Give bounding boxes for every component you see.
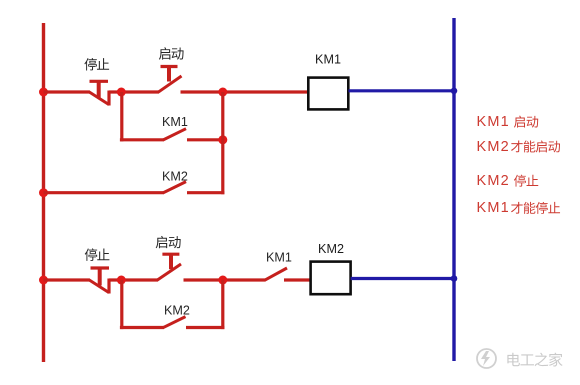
contact KM1 (NO self-hold): moving contact diagonal xyxy=(163,129,186,140)
wire: blue from KM1 coil to right bus xyxy=(349,89,455,92)
svg-text:KM1: KM1 xyxy=(162,115,188,129)
node: junction dot after SB4 (parallel branch tap) xyxy=(218,276,227,285)
wire: left red supply bus L1 xyxy=(42,23,45,362)
node: junction dot after stop button (KM1 branch tap) xyxy=(117,88,126,97)
wire: KM2 contact row left segment from left bus xyxy=(44,191,165,194)
pushbutton SB3 stop (NC): right contact riser xyxy=(107,279,110,294)
pushbutton SB2 start (NO): moving contact diagonal xyxy=(158,76,182,92)
wire: bottom KM2 contact row left segment xyxy=(120,326,164,329)
svg-text:KM1: KM1 xyxy=(477,200,510,216)
svg-text:KM1: KM1 xyxy=(266,250,292,264)
wire: right branch vertical from top rung down to KM2 row xyxy=(221,92,224,194)
pushbutton SB1 stop (NC): right contact riser xyxy=(107,91,110,106)
pushbutton SB3 stop: actuator T bar xyxy=(91,266,110,269)
node: blue junction dot on right bus (top rung) xyxy=(451,88,458,95)
svg-text:KM2: KM2 xyxy=(162,169,188,183)
pushbutton SB1 stop: actuator T bar xyxy=(90,80,109,83)
wire: top rung between SB1 and SB2 xyxy=(109,90,159,93)
wire: blue from KM2 coil to right bus xyxy=(351,277,454,280)
pushbutton SB3 stop (NC): moving contact diagonal xyxy=(89,280,110,293)
wire: top rung from SB2 to KM1 coil xyxy=(181,90,309,93)
wire: right blue neutral bus N xyxy=(452,18,455,361)
wire: KM2 contact row right segment xyxy=(187,191,224,194)
pushbutton SB4 start (NO): moving contact diagonal xyxy=(157,264,181,280)
pushbutton SB1 stop (NC): moving contact diagonal xyxy=(89,92,110,105)
wire: bottom rung from SB4 to KM1 interlock contact xyxy=(184,278,266,281)
svg-text:KM2: KM2 xyxy=(164,303,190,317)
node: junction dot KM1 row / right branch xyxy=(218,135,227,144)
label: 启动 (start) top xyxy=(159,47,170,59)
wire: KM1 contact row right segment xyxy=(187,138,224,141)
node: junction dot after SB3 (KM2 branch tap) xyxy=(117,276,126,285)
wire: bottom KM2 contact row right segment xyxy=(186,326,224,329)
pushbutton SB2 start: actuator stem xyxy=(167,67,171,82)
contact KM1 (NO interlock): moving contact diagonal xyxy=(265,268,288,280)
label: 停止 (stop) top xyxy=(84,58,96,70)
pushbutton SB4 start: actuator stem xyxy=(169,254,173,269)
node: junction dot after start button (parallel branch tap) xyxy=(218,88,227,97)
coil KM1: rectangle xyxy=(308,78,348,110)
svg-text:KM2: KM2 xyxy=(318,242,344,256)
node: junction dot left bus / KM2 row xyxy=(39,188,48,197)
contact KM2 (NO self-hold bottom): moving contact diagonal xyxy=(163,317,186,328)
pushbutton SB1 stop: actuator stem xyxy=(97,81,101,97)
wire: branch drop after SB1 down to KM1 contact row xyxy=(120,92,123,141)
wire: KM1 contact row left segment xyxy=(120,138,164,141)
node: junction dot left bus / bottom rung xyxy=(39,276,48,285)
svg-text:KM1: KM1 xyxy=(315,53,341,67)
contact KM2 (NO): moving contact diagonal xyxy=(163,182,186,193)
watermark logo inner mark xyxy=(481,351,490,366)
wire: branch drop after SB3 down to KM2 row (bottom) xyxy=(120,280,123,329)
pushbutton SB3 stop: actuator stem xyxy=(98,268,102,286)
wire: right branch vertical bottom rung down to KM2 row xyxy=(221,280,224,329)
node: blue junction dot on right bus (bottom rung) xyxy=(451,275,458,282)
node: junction dot left bus / top rung xyxy=(39,88,48,97)
coil KM2: rectangle xyxy=(311,262,351,295)
svg-text:KM2: KM2 xyxy=(477,139,510,155)
pushbutton SB4 start: actuator T bar xyxy=(162,253,179,256)
wire: bottom rung between SB3 and SB4 xyxy=(109,278,158,281)
label: 启动 (start) bottom xyxy=(156,236,167,248)
wire: top rung from left bus to stop button SB1 xyxy=(44,90,90,93)
watermark logo circle xyxy=(477,349,496,368)
wire: bottom rung from left bus to SB3 xyxy=(44,278,90,281)
label: 停止 (stop) bottom xyxy=(85,248,97,260)
svg-text:KM2: KM2 xyxy=(477,173,510,189)
watermark text: 电工之家 xyxy=(507,353,520,367)
wire: bottom rung from KM1 contact to KM2 coil xyxy=(284,278,311,281)
pushbutton SB2 start: actuator T bar xyxy=(161,65,178,68)
svg-text:KM1: KM1 xyxy=(477,114,510,130)
